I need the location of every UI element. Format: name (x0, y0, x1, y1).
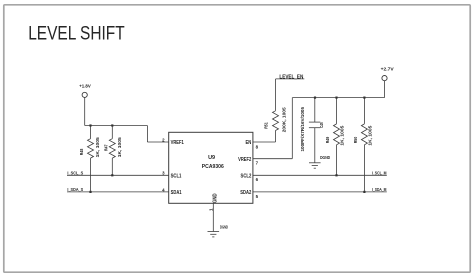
svg-text:DGND: DGND (320, 155, 331, 160)
svg-text:I_SDA_M: I_SDA_M (372, 187, 387, 192)
svg-text:200K, 1005: 200K, 1005 (281, 107, 286, 132)
svg-text:1K, 1005: 1K, 1005 (368, 125, 373, 145)
svg-text:R48: R48 (79, 148, 84, 155)
svg-text:+1.8V: +1.8V (79, 84, 91, 89)
svg-text:U9: U9 (208, 155, 215, 161)
svg-text:SDA1: SDA1 (171, 190, 182, 196)
svg-text:R51: R51 (264, 122, 269, 129)
svg-text:PCA9306: PCA9306 (202, 164, 224, 170)
svg-text:SCL1: SCL1 (171, 173, 182, 179)
svg-text:1: 1 (209, 208, 214, 211)
svg-text:C45: C45 (319, 122, 324, 128)
svg-text:R49: R49 (325, 136, 330, 143)
svg-text:EN: EN (246, 140, 252, 146)
svg-text:VREF1: VREF1 (171, 140, 184, 146)
svg-text:I_SCL_S: I_SCL_S (67, 171, 83, 176)
svg-text:I_SCL_M: I_SCL_M (372, 171, 387, 176)
svg-text:SDA2: SDA2 (240, 190, 251, 196)
svg-text:VREF2: VREF2 (238, 157, 251, 163)
svg-text:DGND: DGND (220, 224, 228, 229)
svg-text:R47: R47 (103, 144, 108, 151)
svg-text:LEVEL_EN: LEVEL_EN (279, 74, 303, 80)
svg-text:R50: R50 (353, 136, 358, 143)
svg-text:1K, 1005: 1K, 1005 (117, 137, 122, 157)
svg-text:+2.7V: +2.7V (381, 67, 394, 72)
svg-text:GND: GND (212, 193, 218, 203)
svg-text:SCL2: SCL2 (241, 173, 252, 179)
svg-text:1K, 1005: 1K, 1005 (95, 137, 100, 157)
svg-text:I_SDA_S: I_SDA_S (67, 187, 83, 192)
svg-text:1K, 1005: 1K, 1005 (340, 125, 345, 145)
svg-text:LEVEL SHIFT: LEVEL SHIFT (28, 22, 125, 44)
svg-text:100PF/X7R/16V/1005: 100PF/X7R/16V/1005 (300, 107, 305, 152)
